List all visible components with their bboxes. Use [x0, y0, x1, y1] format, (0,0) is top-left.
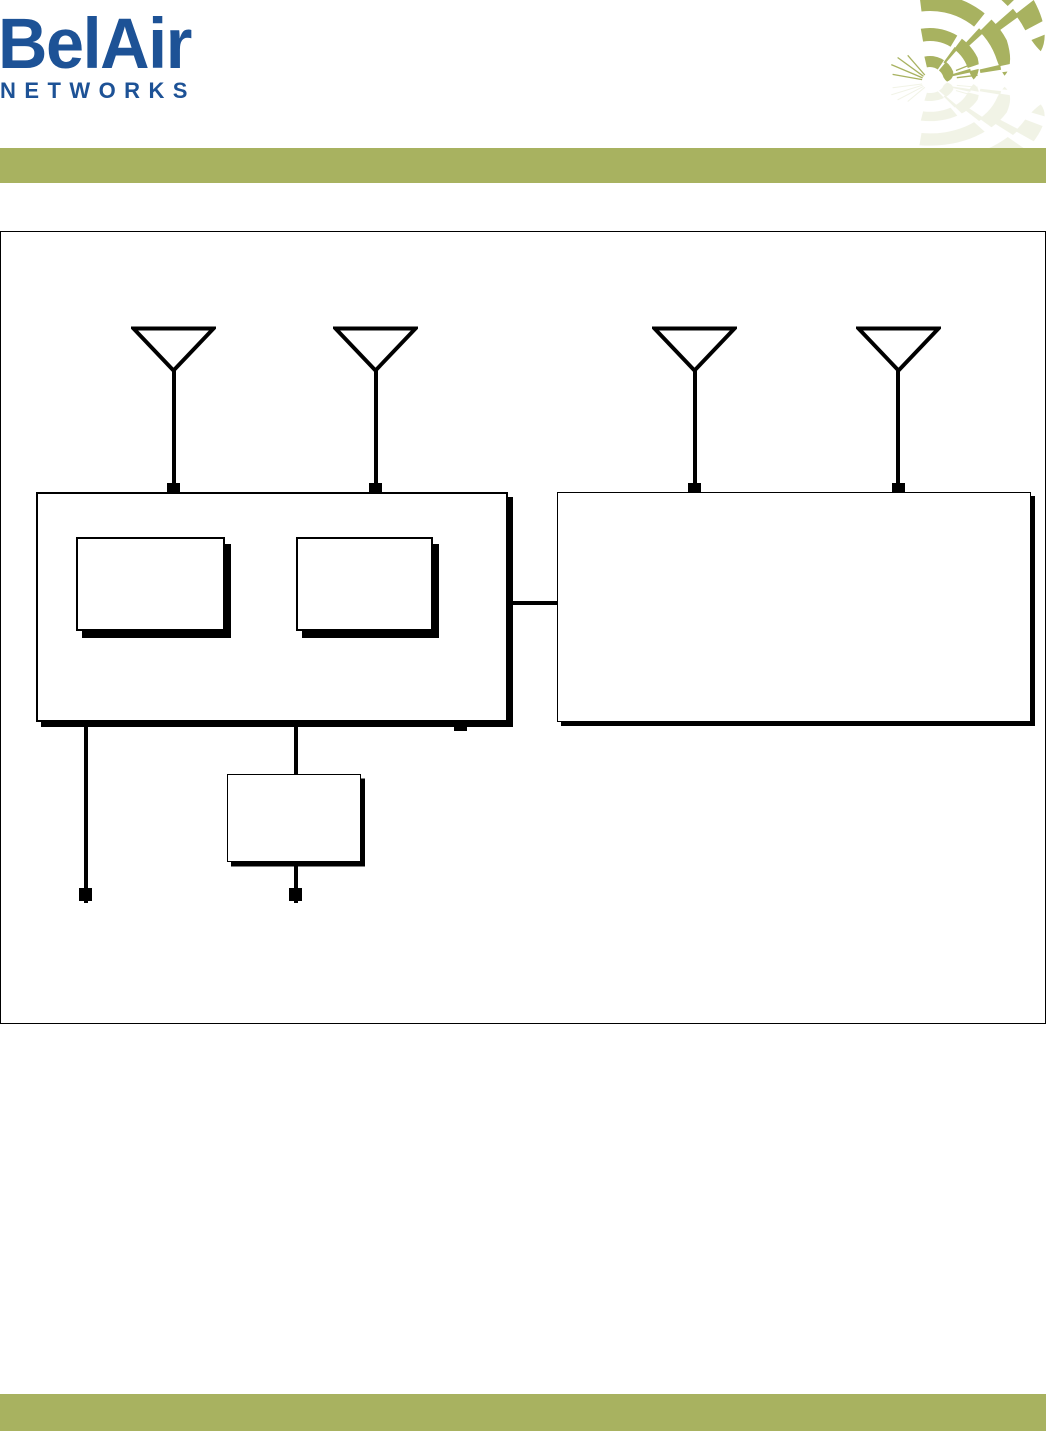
bottom olive banner bar [0, 1394, 1046, 1431]
connector square on left box bottom edge [454, 718, 467, 731]
white radial gaps [937, 0, 1046, 73]
arc rings [919, 0, 1044, 82]
antenna A1 connector square [167, 483, 180, 496]
right radio module box [557, 492, 1031, 722]
BelAir Networks logo wordmark [0, 9, 191, 80]
antenna A4 [856, 325, 941, 377]
decorative swirl graphic top-right [866, 0, 1046, 160]
top olive banner bar [0, 148, 1046, 183]
faint reflection [891, 83, 1046, 178]
left radio module box [36, 492, 508, 722]
inner sub-module box 2 [296, 537, 433, 631]
antenna A3 [652, 325, 737, 377]
diagonal spokes [944, 9, 1020, 76]
logo subtext NETWORKS [0, 80, 196, 102]
antenna A4 connector square [892, 483, 905, 496]
wire from left box to small module [294, 722, 298, 775]
thin rays [891, 55, 977, 79]
inner sub-module box 1 [76, 537, 225, 631]
terminal square port 1 [79, 888, 92, 901]
horizontal link wire between boxes [506, 601, 558, 605]
antenna A1 stem [172, 368, 176, 489]
antenna A3 connector square [688, 483, 701, 496]
wire from left box down (port 1) [84, 722, 88, 903]
antenna A3 stem [693, 368, 697, 489]
antenna A2 [333, 325, 418, 377]
antenna A2 stem [374, 368, 378, 489]
antenna A4 stem [896, 368, 900, 489]
antenna A1 [131, 325, 216, 377]
small module box [227, 774, 361, 862]
diagram outer frame [0, 231, 1046, 1024]
wire from small module down (port 2) [294, 861, 298, 903]
antenna A2 connector square [369, 483, 382, 496]
terminal square port 2 [289, 888, 302, 901]
